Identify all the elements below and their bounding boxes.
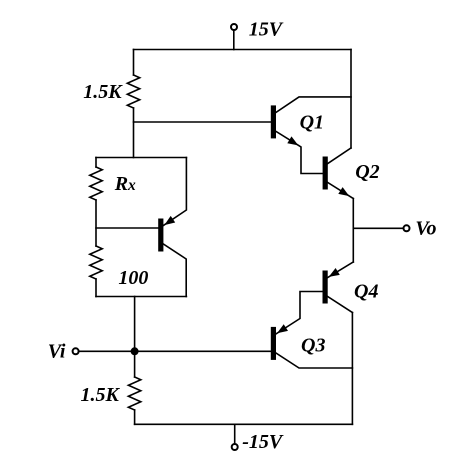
svg-text:1.5K: 1.5K <box>83 81 123 103</box>
svg-text:Q1: Q1 <box>300 112 324 134</box>
svg-text:Q3: Q3 <box>301 334 325 356</box>
svg-text:1.5K: 1.5K <box>81 384 121 406</box>
svg-text:-15V: -15V <box>242 431 284 453</box>
svg-text:Q2: Q2 <box>355 161 379 183</box>
svg-text:Q4: Q4 <box>354 281 378 303</box>
svg-text:Vi: Vi <box>48 341 66 363</box>
svg-text:Rx: Rx <box>114 173 136 195</box>
svg-text:100: 100 <box>118 267 148 289</box>
svg-text:15V: 15V <box>249 19 284 41</box>
svg-text:Vo: Vo <box>415 217 436 239</box>
